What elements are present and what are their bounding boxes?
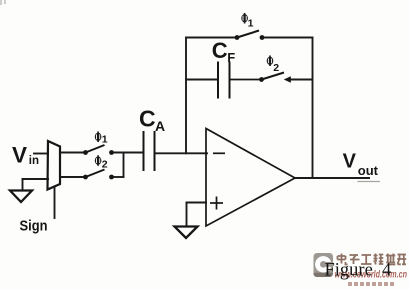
- wire ground1 stub: [22, 179, 24, 191]
- svg-text:F: F: [227, 50, 235, 65]
- mux trapezoid: [48, 141, 61, 190]
- switch S1 phi1 top: [235, 31, 265, 40]
- wire junction bracket vertical: [123, 153, 125, 178]
- op-amp U1: [206, 129, 295, 227]
- ground op-amp: [175, 227, 198, 239]
- wire top feedback right segment: [264, 37, 313, 39]
- wire Sign vertical: [54, 187, 56, 219]
- svg-text:in: in: [29, 155, 39, 167]
- wire phi1 switch output: [112, 152, 143, 154]
- label phi2 top: [267, 56, 280, 74]
- label Vout: [343, 151, 379, 178]
- corner smudge: [0, 0, 6, 5]
- wire ground1 horizontal: [23, 178, 49, 180]
- svg-text:C: C: [139, 106, 156, 132]
- wire left feedback vertical: [185, 38, 187, 154]
- capacitor CF: [218, 62, 261, 99]
- svg-text:Figure 4: Figure 4: [325, 260, 392, 280]
- ground input: [10, 191, 32, 203]
- switch S3 phi1 left: [83, 145, 114, 155]
- label CA: [139, 106, 165, 135]
- wire ground stub op-amp: [186, 203, 188, 227]
- watermark chinese title: [338, 254, 407, 265]
- wire phi1 switch input: [60, 152, 85, 154]
- svg-text:C: C: [212, 38, 228, 63]
- svg-text:V: V: [343, 151, 357, 173]
- svg-text:V: V: [12, 143, 27, 168]
- switch S2 phi2 top: [259, 73, 291, 83]
- watermark small slogan: [348, 282, 394, 286]
- wire inverting input: [155, 152, 207, 154]
- svg-text:out: out: [358, 163, 379, 178]
- wire noninverting input: [187, 202, 207, 204]
- label phi1 left: [95, 132, 108, 146]
- svg-text:Sign: Sign: [20, 218, 48, 235]
- watermark logo box: [314, 253, 334, 277]
- switch S4 phi2 left: [83, 170, 114, 180]
- svg-text:2: 2: [273, 62, 279, 74]
- label phi1 top: [241, 13, 253, 30]
- wire middle feedback left segment: [186, 79, 217, 81]
- wire right feedback vertical: [312, 38, 314, 179]
- wire phi2 switch output: [112, 176, 124, 178]
- label Vin: [12, 143, 39, 168]
- label phi2 left: [95, 155, 108, 170]
- wire phi2 switch input: [60, 176, 85, 178]
- svg-text:1: 1: [248, 18, 254, 30]
- svg-text:2: 2: [102, 158, 108, 170]
- wire output faint tail: [358, 181, 380, 183]
- wire C_A left: [124, 152, 144, 154]
- wire top feedback left segment: [186, 37, 235, 39]
- wire middle feedback right segment: [290, 79, 313, 81]
- svg-text:A: A: [155, 118, 165, 134]
- wire Vin input: [34, 153, 48, 155]
- wire output: [295, 177, 369, 179]
- capacitor CA: [144, 131, 155, 171]
- svg-text:1: 1: [102, 134, 108, 146]
- label CF: [212, 38, 236, 65]
